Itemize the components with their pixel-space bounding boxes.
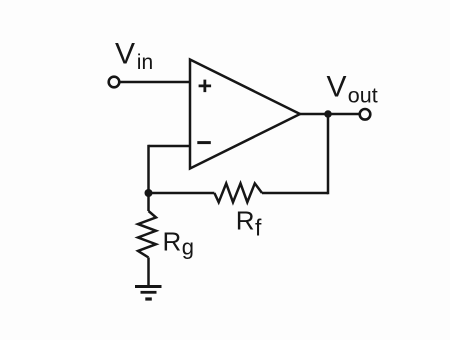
wire feedback vertical down to junction bbox=[147, 145, 150, 193]
terminal Vin (open circle) bbox=[109, 77, 120, 88]
wire Rf to output corner bbox=[262, 192, 328, 195]
wire Vin to op-amp + input bbox=[119, 81, 191, 84]
label Rf bbox=[236, 206, 262, 241]
svg-text:f: f bbox=[255, 215, 262, 241]
svg-text:R: R bbox=[163, 227, 182, 257]
svg-text:V: V bbox=[327, 71, 347, 104]
svg-text:in: in bbox=[137, 51, 153, 74]
wire op-amp - input to feedback corner bbox=[149, 145, 192, 148]
resistor Rf bbox=[214, 183, 262, 202]
wire op-amp output to Vout terminal bbox=[300, 113, 360, 116]
wire output vertical bbox=[327, 114, 330, 194]
ground bbox=[135, 287, 162, 300]
resistor Rg bbox=[138, 211, 156, 258]
node output (dot) bbox=[324, 110, 332, 118]
label Rg bbox=[163, 227, 195, 260]
svg-text:out: out bbox=[348, 84, 378, 108]
terminal Vout (open circle) bbox=[360, 109, 371, 120]
wire junction to Rf bbox=[149, 192, 215, 195]
label Vout bbox=[327, 71, 378, 108]
label Vin bbox=[115, 38, 153, 75]
wire junction to Rg bbox=[147, 193, 150, 211]
node junction (dot) bbox=[145, 189, 153, 197]
svg-text:g: g bbox=[182, 235, 194, 260]
svg-text:V: V bbox=[115, 38, 135, 71]
op-amp U1 bbox=[190, 60, 300, 169]
wire Rg to ground bbox=[147, 258, 150, 286]
svg-text:R: R bbox=[236, 206, 255, 236]
